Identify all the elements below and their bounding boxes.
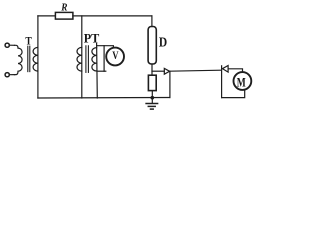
wire T secondary vertical — [37, 16, 39, 98]
svg-text:V: V — [112, 50, 119, 62]
wire divider top drop — [151, 16, 153, 27]
wire voltmeter left vertical — [103, 46, 105, 71]
transformer T secondary winding — [33, 47, 38, 71]
transformer T core — [27, 46, 29, 71]
voltmeter V1 circle — [106, 48, 124, 66]
svg-text:T: T — [25, 35, 32, 47]
transformer PT secondary winding — [92, 48, 97, 71]
wire voltmeter top lead — [97, 46, 114, 48]
wire top terminal stub — [9, 44, 14, 46]
svg-text:D: D — [159, 34, 168, 49]
wire voltmeter bottom lead — [97, 70, 106, 72]
wire instrument socket vertical — [221, 66, 223, 98]
wire measuring cable — [170, 70, 221, 71]
ground symbol — [151, 98, 153, 103]
wire bottom ground rail — [38, 97, 170, 100]
meter M1 circle — [234, 72, 252, 90]
resistor R1 box — [55, 12, 73, 19]
wire tube to low-voltage arm — [151, 64, 153, 75]
svg-text:M: M — [237, 75, 246, 89]
wire PT secondary vertical — [96, 44, 99, 99]
transformer PT primary winding — [77, 47, 82, 71]
transformer PT core — [85, 46, 87, 73]
wire meter return loop — [222, 90, 245, 98]
wire low-voltage arm to rail — [151, 91, 153, 98]
transformer T primary winding — [15, 45, 23, 74]
wire tap to connector — [152, 70, 164, 72]
terminal bottom input — [5, 73, 9, 77]
resistor low-voltage arm box — [148, 75, 156, 90]
connector plug left (arrow right) — [164, 68, 169, 74]
connector plug right (arrow left) — [222, 66, 228, 73]
divider D high-voltage arm tube — [148, 27, 156, 65]
terminal top input — [5, 43, 9, 47]
svg-text:R: R — [60, 3, 67, 14]
transformer PT primary vertical wire — [81, 16, 83, 98]
junction dot divider tap node — [151, 96, 155, 100]
wire connector ground drop — [169, 71, 171, 97]
wire top horizontal bus — [38, 15, 56, 17]
svg-text:PT: PT — [84, 31, 100, 46]
wire bottom terminal stub — [9, 74, 14, 76]
wire plug to meter — [228, 69, 242, 72]
